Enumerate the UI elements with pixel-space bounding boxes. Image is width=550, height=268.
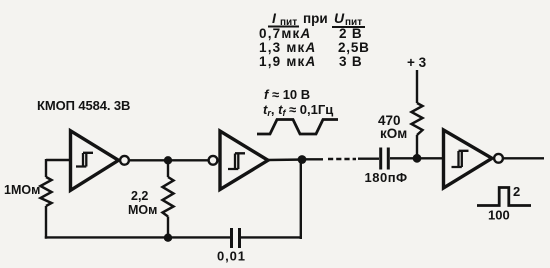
node dot B (bottom): [164, 234, 172, 242]
waveform trapezoid: [257, 120, 338, 135]
svg-text:3 В: 3 В: [339, 54, 362, 69]
wire input left rail: [46, 159, 71, 161]
wire to capacitor 180пФ: [358, 157, 379, 159]
svg-text:2 В: 2 В: [339, 26, 362, 41]
svg-text:0,7мкА: 0,7мкА: [259, 26, 311, 41]
header underline (I пит): [268, 26, 299, 28]
wire capacitor to node D: [390, 157, 443, 159]
svg-text:f ≈ 10 В: f ≈ 10 В: [264, 87, 310, 102]
svg-text:при: при: [303, 11, 328, 26]
wire left rail down: [45, 159, 47, 177]
op-amp U2 (schmitt inverter 2): [220, 131, 268, 190]
wire resistor to bottom node: [167, 217, 169, 239]
svg-text:2,2: 2,2: [131, 189, 148, 203]
hysteresis glyph U2: [228, 153, 245, 169]
wire node A down: [167, 160, 169, 177]
hysteresis glyph U3: [452, 151, 469, 167]
svg-text:КМОП 4584. 3В: КМОП 4584. 3В: [37, 98, 130, 113]
resistor 1МОм: [41, 177, 52, 206]
svg-text:кОм: кОм: [380, 126, 407, 141]
input bubble U2: [209, 156, 218, 165]
svg-text:1,3 мкА: 1,3 мкА: [259, 40, 316, 55]
wire resistor to bottom: [45, 206, 47, 239]
node dot C: [298, 155, 307, 164]
svg-text:100: 100: [488, 208, 510, 223]
op-amp U1 (schmitt inverter 1): [71, 131, 119, 191]
wire +3 to resistor: [416, 70, 418, 103]
svg-text:2: 2: [513, 184, 520, 199]
wire bottom to node C: [300, 160, 302, 240]
wire resistor to node: [416, 135, 418, 159]
output bubble U3: [494, 154, 503, 163]
resistor 470 кОм: [412, 103, 423, 135]
capacitor 180пФ: [379, 148, 382, 170]
capacitor 0,01: [230, 228, 233, 248]
svg-text:1МОм: 1МОм: [4, 183, 40, 197]
wire U2 out to node C: [268, 158, 306, 161]
bottom wire right: [241, 236, 302, 238]
output bubble U1: [120, 156, 129, 165]
wire dashed segment: [328, 158, 356, 160]
hysteresis glyph U1: [76, 153, 93, 167]
svg-text:180пФ: 180пФ: [365, 170, 408, 185]
op-amp U3 (schmitt inverter 3): [444, 130, 493, 188]
svg-text:U: U: [334, 10, 345, 26]
svg-text:0,01: 0,01: [217, 249, 246, 264]
svg-text:МОм: МОм: [128, 203, 157, 217]
output pulse waveform: [477, 188, 531, 206]
svg-text:1,9 мкА: 1,9 мкА: [259, 54, 316, 69]
svg-text:tr, tf ≈ 0,1Гц: tr, tf ≈ 0,1Гц: [263, 102, 333, 118]
svg-text:2,5В: 2,5В: [338, 40, 370, 55]
wire output: [503, 157, 544, 159]
bottom wire left: [45, 236, 230, 238]
svg-text:+ 3: + 3: [407, 55, 427, 70]
node dot D: [413, 154, 422, 163]
wire U1 out to U2 in: [129, 159, 208, 161]
node dot A: [164, 156, 172, 164]
wire node C solid stub: [306, 158, 323, 160]
header underline (U пит): [332, 26, 365, 28]
resistor 2,2 МОм: [163, 177, 174, 217]
